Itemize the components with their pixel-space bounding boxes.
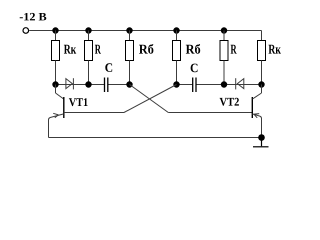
wire: Rб2 bottom lead [176,61,178,85]
label VT1 [69,98,88,106]
wire: VT1 base lead [64,112,124,114]
junction dot: node A (VT1 collector / Rк1 / VD1 anode) [52,81,58,87]
label Rк1 [64,45,76,54]
label VT2 [220,98,239,106]
capacitor C2 [193,78,196,93]
wire: R1 top lead [88,31,90,41]
junction dot: rail / R1 [85,27,91,33]
wire: Rк1 bottom lead [55,61,57,85]
wire: cross-coupling node C to VT2 base [130,85,169,113]
junction dot: rail / R2 [221,27,227,33]
junction dot: node B (VD1 cathode / R1 / C1) [85,81,91,87]
wire: VT1 collector vertical [55,85,57,94]
wire: Rк1 top lead [55,31,57,41]
label -12 В (supply voltage) [20,13,47,21]
wire: rail corner down to Rк2 top [261,31,263,41]
label R1 [95,45,101,54]
junction dot: rail / Rб1 [126,27,132,33]
wire: Rб1 bottom lead [129,61,131,85]
junction dot: rail / Rк1 [52,27,58,33]
wire: Rк2 bottom lead [261,61,263,85]
wire: top supply rail [29,30,261,32]
wire: VT2 collector vertical [261,85,263,94]
resistor R2 [220,41,228,61]
label C1 [105,63,112,72]
transistor VT2 emitter with arrow [252,114,261,119]
junction dot: node B' (VD2 cathode / R2 / C2) [221,81,227,87]
junction dot: node C' (C2 / Rб2 / to VT1 base) [173,81,179,87]
capacitor C1 [105,78,108,93]
wire: VT1 emitter vertical [48,120,50,138]
wire: VT2 emitter vertical [261,118,263,138]
wire: R1 bottom lead [88,61,90,85]
junction dot: node C (C1 / Rб1 / to VT2 base) [126,81,132,87]
junction dot: node A' (VT2 collector / Rк2 / VD2 anode) [258,81,264,87]
label C2 [191,64,198,73]
diode VD1 [66,78,74,89]
ground [253,138,269,147]
wire: Rб1 top lead [129,31,131,41]
wire: C2 right plate to node A' (through VD2) [196,84,261,86]
label R2 [231,45,237,54]
wire: node C' to C2 left plate [177,84,193,86]
resistor Rк2 [258,41,266,61]
wire: cross-coupling node C' to VT1 base [124,85,177,113]
wire: VT2 base lead [168,112,252,114]
wire: bottom emitter rail [49,137,262,139]
wire: Rб2 top lead [176,31,178,41]
transistor VT1 base bar [63,97,65,118]
label Rб1 [139,44,153,54]
transistor VT2 base bar [251,97,253,118]
resistor R1 [85,41,93,61]
wire: R2 bottom lead [223,61,225,85]
resistor Rб1 [126,41,134,61]
wire: VT2 collector slant [253,93,262,99]
resistor Rб2 [173,41,181,61]
transistor VT1 emitter with arrow [49,113,64,120]
wire: node A to node B (through VD1) [56,84,105,86]
wire: C1 right plate to node C [108,84,129,86]
wire: VT1 collector slant [56,93,64,99]
junction dot: rail / Rб2 [173,27,179,33]
label Rк2 [269,45,281,54]
terminal (supply input circle) [23,28,29,34]
wire: R2 top lead [223,31,225,41]
diode VD2 [236,78,244,89]
label Rб2 [186,44,200,54]
resistor Rк1 [52,41,60,61]
junction dot: rail / ground [258,134,265,141]
